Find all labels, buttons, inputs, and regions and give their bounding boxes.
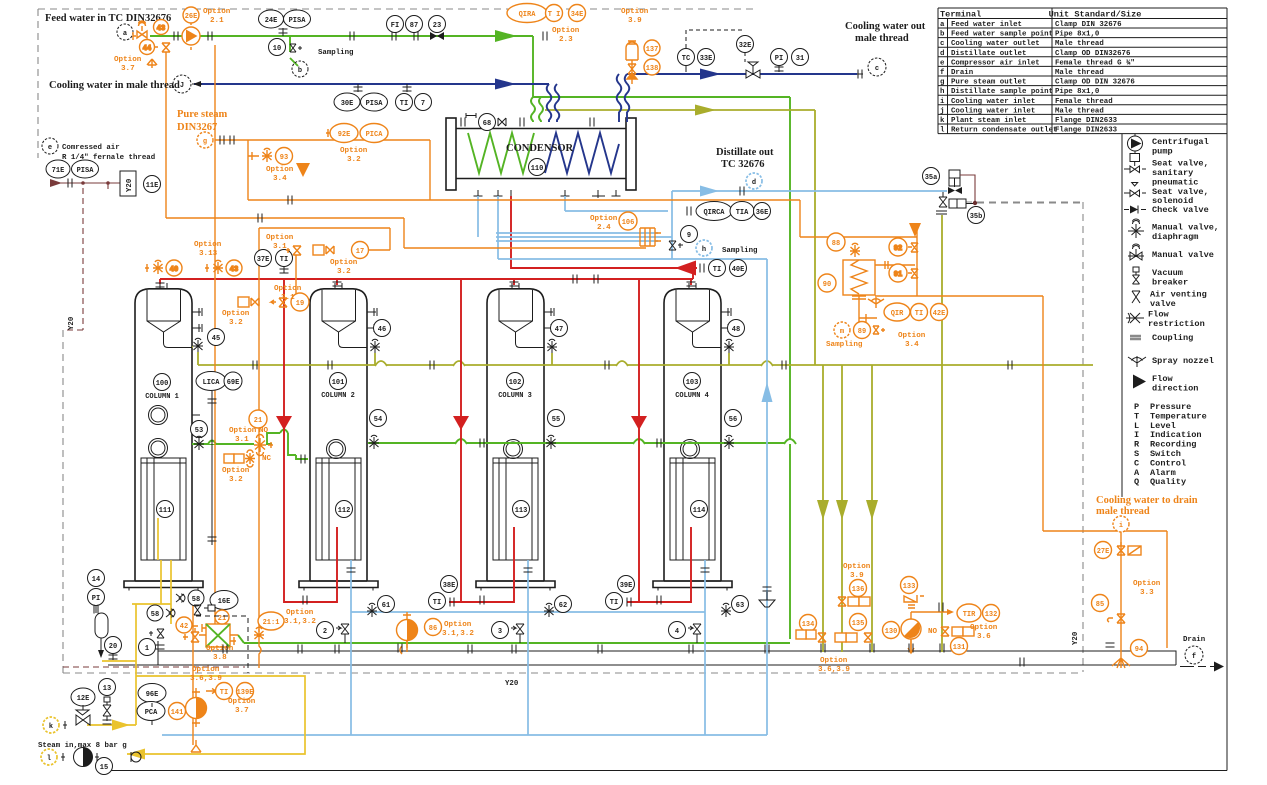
legend check valve icon	[1124, 206, 1146, 214]
svg-text:20: 20	[109, 643, 117, 651]
valve 44	[140, 40, 171, 69]
bubble 1	[139, 639, 165, 656]
svg-text:42E: 42E	[933, 310, 946, 318]
column C4 sight glass	[681, 440, 700, 459]
svg-text:Option: Option	[340, 147, 368, 155]
svg-text:54: 54	[374, 416, 382, 424]
svg-text:Pure steam outlet: Pure steam outlet	[951, 79, 1026, 87]
svg-text:Clamp OD DIN 32676: Clamp OD DIN 32676	[1055, 79, 1135, 87]
svg-text:112: 112	[338, 507, 351, 515]
svg-text:Drain: Drain	[951, 69, 973, 77]
svg-text:Male thread: Male thread	[1055, 107, 1104, 115]
svg-text:LICA: LICA	[203, 379, 221, 387]
bubbles 38E TI c2	[429, 576, 458, 610]
svg-text:Option: Option	[330, 259, 358, 267]
svg-text:62: 62	[559, 602, 567, 610]
svg-text:130: 130	[885, 628, 898, 636]
svg-text:Male thread: Male thread	[1055, 69, 1104, 77]
option 3.2 17	[330, 259, 358, 276]
svg-text:Option: Option	[229, 427, 257, 435]
valve cluster 58a	[176, 590, 204, 606]
svg-text:Flange DIN2633: Flange DIN2633	[1055, 127, 1118, 135]
svg-text:Female thread: Female thread	[1055, 98, 1113, 106]
bubbles QIR TI 42E	[884, 303, 948, 321]
svg-text:Flange DIN2633: Flange DIN2633	[1055, 117, 1118, 125]
condenser title	[506, 143, 574, 154]
heater bubbles 111-114	[157, 501, 174, 518]
svg-text:Flow: Flow	[1152, 374, 1173, 384]
bubbles TI 139E	[206, 683, 254, 700]
pressure pot	[94, 605, 108, 659]
svg-text:Sampling: Sampling	[826, 341, 863, 349]
valve 40 red header	[145, 260, 182, 276]
sheet border right	[1226, 8, 1228, 771]
svg-text:h: h	[702, 246, 706, 254]
bubble 12E + valve	[71, 688, 95, 725]
option 3.6 3.9 trough	[190, 657, 850, 683]
label pure steam	[177, 109, 228, 133]
svg-text:32E: 32E	[739, 42, 752, 50]
svg-text:Female thread G ¾": Female thread G ¾"	[1055, 59, 1135, 67]
svg-text:Seat valve,: Seat valve,	[1152, 159, 1209, 169]
Y20 box	[120, 171, 136, 196]
sampling m row	[834, 322, 885, 339]
svg-text:Clamp DIN 32676: Clamp DIN 32676	[1055, 21, 1122, 29]
svg-text:106: 106	[622, 219, 635, 227]
navy cooling in	[194, 84, 559, 122]
Y20 vertical right	[1072, 631, 1080, 645]
svg-text:139E: 139E	[237, 689, 254, 697]
svg-text:Option: Option	[898, 332, 926, 340]
label cooling water in	[49, 80, 180, 91]
maroon hash	[68, 179, 108, 190]
option 3.1 3.2 left	[284, 609, 316, 626]
svg-text:PISA: PISA	[289, 17, 307, 25]
red arrow left	[675, 261, 696, 276]
bubbles TC 33E	[678, 49, 715, 73]
svg-text:TI: TI	[610, 599, 618, 607]
label distillate out	[716, 147, 774, 170]
svg-text:TI: TI	[220, 689, 228, 697]
svg-text:Coupling: Coupling	[1152, 333, 1193, 343]
svg-text:27E: 27E	[1097, 548, 1110, 556]
bubble 4	[669, 622, 702, 644]
option 3.1 19	[274, 285, 302, 302]
bubble 15	[96, 758, 113, 775]
column C2 sight glass	[327, 440, 346, 459]
svg-text:Option: Option	[843, 563, 871, 571]
svg-text:47: 47	[555, 326, 563, 334]
svg-text:PISA: PISA	[77, 167, 95, 175]
bubbles 135 cluster	[835, 614, 872, 643]
valve 9 sampling	[669, 226, 698, 251]
orange hx outlet	[859, 225, 1043, 531]
bubbles TI 40E	[700, 260, 747, 277]
svg-text:17: 17	[356, 248, 364, 256]
legend manual valve icon	[1128, 244, 1144, 260]
red condensate return	[511, 196, 697, 268]
svg-text:Option: Option	[114, 56, 142, 64]
svg-text:3.7: 3.7	[121, 65, 135, 73]
svg-text:f: f	[1192, 653, 1196, 661]
svg-text:breaker: breaker	[1152, 278, 1188, 288]
svg-text:110: 110	[531, 165, 544, 173]
svg-text:f: f	[940, 69, 945, 77]
valve x 163	[149, 629, 164, 638]
svg-text:63: 63	[736, 602, 744, 610]
option 2.1	[203, 8, 231, 25]
svg-text:NC: NC	[262, 455, 272, 463]
navy cooling out	[617, 74, 857, 122]
svg-text:k: k	[940, 117, 945, 125]
valve option 3.2 NC	[222, 450, 255, 484]
svg-text:g: g	[940, 79, 945, 87]
bubble 100 column1	[145, 374, 179, 402]
signal to frame	[977, 202, 1083, 204]
svg-text:68: 68	[483, 120, 491, 128]
svg-text:Option: Option	[228, 698, 256, 706]
option 3.3	[1133, 580, 1161, 597]
svg-text:Cooling water in male thread: Cooling water in male thread	[49, 80, 180, 91]
svg-text:85: 85	[1096, 601, 1104, 609]
frame dashed right	[965, 202, 1083, 672]
terminal l	[41, 749, 65, 765]
column C2 vessel	[299, 283, 378, 591]
svg-text:46: 46	[378, 326, 386, 334]
svg-text:Quality: Quality	[1150, 477, 1186, 487]
svg-text:102: 102	[509, 379, 522, 387]
svg-text:3.13: 3.13	[199, 250, 218, 258]
svg-text:3: 3	[498, 628, 502, 636]
bubble 133	[901, 577, 925, 609]
svg-text:k: k	[49, 723, 53, 731]
svg-text:58: 58	[192, 596, 200, 604]
svg-text:37E: 37E	[257, 256, 270, 264]
bubble 102 column3	[498, 373, 532, 401]
svg-text:10: 10	[273, 45, 281, 53]
legend spray nozzle icon	[1128, 356, 1146, 367]
svg-text:QIRA: QIRA	[519, 11, 537, 19]
svg-text:male thread: male thread	[1096, 506, 1150, 517]
spray drain	[1112, 652, 1130, 668]
bubbles QIRA T 34E	[507, 4, 586, 23]
legend vacuum breaker icon	[1133, 267, 1140, 284]
svg-text:Cooling water outlet: Cooling water outlet	[951, 40, 1040, 48]
terminal c	[857, 58, 886, 79]
manifold dashed enclosure	[196, 616, 248, 673]
option 3.7 bottom	[228, 698, 256, 715]
legend box borders	[1121, 134, 1123, 497]
orange valve 21 drop	[259, 228, 296, 632]
svg-text:c: c	[875, 65, 879, 73]
bubbles PI 31	[771, 49, 809, 73]
svg-text:Feed water sample point: Feed water sample point	[951, 31, 1053, 39]
bubbles 30E PISA	[334, 84, 388, 111]
orange header y228	[259, 228, 390, 250]
svg-text:male thread: male thread	[855, 33, 909, 44]
svg-text:Distillate outlet: Distillate outlet	[951, 50, 1026, 58]
svg-text:35a: 35a	[925, 174, 938, 182]
svg-text:COLUMN 4: COLUMN 4	[675, 392, 709, 400]
svg-text:2.1: 2.1	[210, 17, 224, 25]
drain dashdot	[1180, 662, 1224, 672]
svg-text:Manual valve: Manual valve	[1152, 250, 1214, 260]
svg-text:137: 137	[646, 46, 659, 54]
svg-text:3.1: 3.1	[235, 436, 249, 444]
Y20 vertical left	[68, 316, 76, 330]
svg-text:23: 23	[433, 22, 441, 30]
svg-text:TI: TI	[280, 256, 288, 264]
svg-text:Flow: Flow	[1148, 310, 1169, 320]
red hashes col tops	[156, 275, 696, 288]
trough drain channel	[108, 651, 1176, 665]
option 3.7 top	[114, 56, 142, 73]
coupler ribs	[640, 228, 661, 246]
svg-text:TI: TI	[713, 266, 721, 274]
terminal f	[1185, 646, 1203, 664]
svg-text:26E: 26E	[185, 13, 198, 21]
label drain	[1183, 636, 1205, 644]
svg-text:134: 134	[802, 621, 815, 629]
svg-text:48: 48	[732, 326, 740, 334]
svg-text:QIRCA: QIRCA	[703, 209, 725, 217]
svg-text:TC: TC	[682, 55, 690, 63]
svg-text:Centrifugal: Centrifugal	[1152, 137, 1209, 147]
svg-text:i: i	[940, 98, 945, 106]
orange pure steam header g	[215, 140, 430, 200]
svg-text:Feed water in TC DIN32676: Feed water in TC DIN32676	[45, 13, 171, 24]
svg-text:Option: Option	[274, 285, 302, 293]
Y20 horizontal	[505, 680, 519, 688]
svg-text:NO: NO	[259, 427, 269, 435]
svg-text:TC 32676: TC 32676	[721, 159, 764, 170]
valve 43 top	[133, 20, 169, 41]
hx 88 90	[843, 243, 875, 299]
manifold option 3.8	[199, 610, 238, 647]
accumulator option 3.9	[621, 8, 660, 84]
orange Y drain	[191, 740, 201, 752]
svg-text:Check valve: Check valve	[1152, 205, 1209, 215]
svg-text:133: 133	[903, 583, 916, 591]
svg-text:Option: Option	[820, 657, 848, 665]
sky sample tube	[496, 233, 658, 241]
svg-text:PI: PI	[775, 55, 783, 63]
terminal h	[696, 240, 712, 256]
column C3 sight glass	[504, 440, 523, 459]
svg-text:d: d	[752, 179, 756, 187]
bubble 42	[176, 617, 199, 642]
bubble 90	[818, 274, 836, 292]
svg-text:34E: 34E	[571, 11, 584, 19]
svg-text:96E: 96E	[146, 691, 159, 699]
svg-text:13: 13	[103, 685, 111, 693]
svg-text:7: 7	[421, 100, 425, 108]
yellow arrows	[112, 720, 145, 760]
hash marks green feed	[174, 32, 547, 41]
svg-text:11E: 11E	[146, 182, 159, 190]
terminal d	[740, 173, 762, 196]
svg-text:Spray nozzel: Spray nozzel	[1152, 356, 1214, 366]
svg-text:COLUMN 1: COLUMN 1	[145, 393, 179, 401]
svg-text:56: 56	[729, 416, 737, 424]
bubble 110	[529, 159, 546, 176]
svg-text:PCA: PCA	[145, 709, 158, 717]
sky condenser left stub	[498, 196, 640, 259]
svg-text:Option: Option	[970, 624, 998, 632]
svg-text:31: 31	[796, 55, 804, 63]
bubble 2	[317, 622, 350, 644]
bubble 62	[544, 596, 572, 618]
sky arrow right	[700, 186, 719, 197]
svg-text:m: m	[840, 328, 844, 336]
bubble 101 column2	[321, 373, 355, 401]
frame dashed top	[38, 9, 755, 158]
svg-text:FI: FI	[391, 22, 399, 30]
svg-text:Cooling water inlet: Cooling water inlet	[951, 98, 1035, 106]
green arrow feed	[495, 30, 517, 42]
orange bottom spine	[193, 604, 911, 745]
bubble 32E + signal	[686, 30, 754, 62]
valve 19 row	[238, 293, 309, 311]
bubble 88	[827, 233, 845, 251]
green feed main	[150, 36, 543, 122]
svg-text:3.1,3.2: 3.1,3.2	[442, 630, 474, 638]
svg-text:Option: Option	[444, 621, 472, 629]
svg-text:Plant steam inlet: Plant steam inlet	[951, 117, 1026, 125]
svg-text:PI: PI	[92, 595, 100, 603]
svg-text:3.2: 3.2	[347, 156, 361, 164]
legend coupling icon	[1130, 336, 1141, 339]
svg-text:3.2: 3.2	[337, 268, 351, 276]
svg-text:h: h	[940, 88, 944, 96]
orange tri down	[296, 163, 921, 237]
svg-text:b: b	[298, 67, 302, 75]
option 3.1 3.2 pump	[442, 621, 474, 638]
svg-text:sanitary: sanitary	[1152, 168, 1193, 178]
svg-text:DIN3267: DIN3267	[177, 122, 217, 133]
svg-text:42: 42	[180, 623, 188, 631]
valve 21 three-way	[229, 410, 273, 463]
svg-text:92: 92	[894, 245, 902, 253]
svg-text:g: g	[203, 138, 207, 146]
svg-text:QIR: QIR	[891, 310, 904, 318]
bubbles FI 87	[387, 16, 423, 33]
svg-text:NO: NO	[928, 628, 938, 636]
navy arrow out	[700, 69, 721, 80]
sky column drains	[351, 560, 705, 735]
option 3.6	[970, 624, 998, 641]
option 2.4	[590, 215, 618, 232]
svg-text:b: b	[940, 31, 945, 39]
olive vent header	[198, 361, 1093, 370]
svg-text:19: 19	[296, 300, 304, 308]
svg-text:TI: TI	[915, 310, 923, 318]
column C1 sight glasses	[149, 406, 168, 458]
frame dashed left/bottom	[63, 330, 1083, 673]
svg-text:93: 93	[280, 154, 288, 162]
svg-text:16E: 16E	[218, 598, 231, 606]
yellow plant steam	[87, 560, 305, 754]
svg-text:Feed water inlet: Feed water inlet	[951, 21, 1022, 29]
svg-text:3.6,3.9: 3.6,3.9	[818, 666, 850, 674]
valve 93	[248, 148, 293, 165]
bubble 68 + valve	[479, 114, 507, 131]
sky condenser drain	[478, 191, 947, 259]
option 3.4 right	[898, 332, 926, 349]
legend manual diaphragm valve icon	[1128, 219, 1144, 238]
svg-text:21:1: 21:1	[263, 619, 280, 627]
green top right branch	[533, 97, 790, 639]
svg-text:Cooling water inlet: Cooling water inlet	[951, 107, 1035, 115]
svg-text:61: 61	[382, 602, 390, 610]
label steam in	[38, 742, 127, 750]
maroon compressed air	[50, 179, 122, 187]
green bottom header	[238, 635, 790, 643]
svg-text:3.1: 3.1	[281, 294, 295, 302]
option 3.8 text	[206, 645, 234, 662]
svg-text:Air venting: Air venting	[1150, 290, 1207, 300]
option 2.3	[552, 27, 580, 44]
legend flow direction icon	[1133, 375, 1146, 389]
label cooling water out	[845, 21, 926, 44]
red heater stubs	[336, 526, 338, 528]
svg-text:Drain: Drain	[1183, 636, 1205, 644]
bubbles 134 cluster	[796, 615, 826, 643]
svg-text:pneumatic: pneumatic	[1152, 178, 1198, 188]
svg-text:Option: Option	[1133, 580, 1161, 588]
column C4 vessel	[653, 283, 732, 591]
orange pump 141	[186, 688, 207, 727]
svg-text:d: d	[940, 50, 944, 58]
svg-text:40E: 40E	[732, 266, 745, 274]
svg-text:89: 89	[858, 328, 866, 336]
svg-text:3.8: 3.8	[213, 654, 227, 662]
svg-text:131: 131	[953, 644, 966, 652]
svg-text:9: 9	[687, 232, 691, 240]
bubbles 71E PISA	[46, 160, 99, 178]
bubbles 136 cluster	[838, 580, 870, 607]
svg-text:Option: Option	[590, 215, 618, 223]
svg-text:i: i	[1119, 522, 1123, 530]
orange long vertical left	[166, 45, 215, 640]
svg-text:Option: Option	[266, 166, 294, 174]
bubbles 39E TI c3	[606, 576, 635, 610]
condenser bottom stubs	[474, 190, 621, 200]
svg-text:e: e	[940, 59, 945, 67]
valve x 16E actuator	[194, 605, 215, 615]
valve 92	[875, 238, 918, 269]
svg-text:3.6,3.9: 3.6,3.9	[190, 675, 222, 683]
svg-text:Pipe 8x1,0: Pipe 8x1,0	[1055, 31, 1100, 39]
svg-text:14: 14	[92, 576, 100, 584]
orange right drain	[1043, 530, 1167, 652]
svg-text:3.1,3.2: 3.1,3.2	[284, 618, 316, 626]
option 3.9 bottom	[843, 563, 871, 580]
svg-text:TI: TI	[433, 599, 441, 607]
bubble 61	[367, 596, 395, 618]
svg-text:R 1/4" fernale thread: R 1/4" fernale thread	[62, 154, 155, 162]
yellow inside heater1	[157, 466, 159, 560]
svg-text:valve: valve	[1150, 299, 1176, 309]
valve cluster 58b	[147, 605, 175, 621]
svg-text:Distillate sample point: Distillate sample point	[951, 88, 1053, 96]
svg-text:3.9: 3.9	[850, 572, 864, 580]
sky distillate riser	[162, 259, 767, 735]
svg-text:e: e	[48, 144, 52, 152]
svg-text:4: 4	[675, 628, 679, 636]
svg-text:36E: 36E	[756, 209, 769, 217]
svg-text:c: c	[940, 40, 944, 48]
